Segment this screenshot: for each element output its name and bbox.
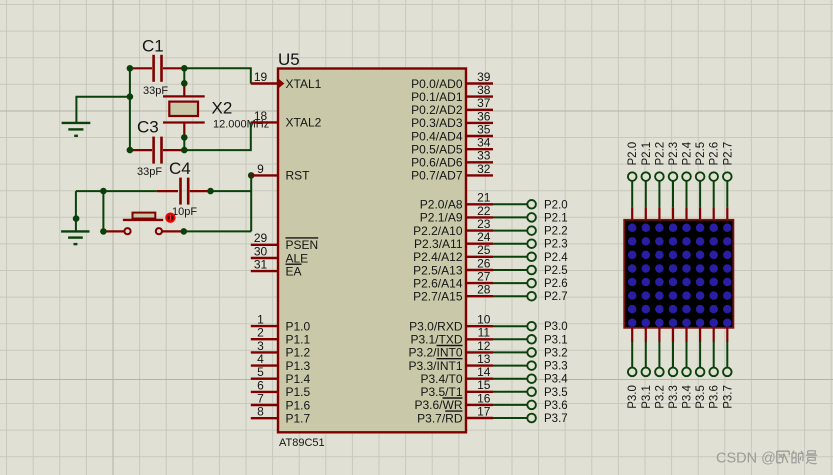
- svg-text:P2.1/A9: P2.1/A9: [420, 211, 463, 225]
- svg-text:12: 12: [477, 339, 491, 353]
- terminal P2.2 matrix top: [654, 142, 666, 181]
- svg-text:15: 15: [477, 378, 491, 392]
- wire P2.0 to terminal: [493, 203, 527, 205]
- svg-text:33pF: 33pF: [143, 85, 168, 97]
- wire matrix bottom column 5: [699, 342, 701, 367]
- terminal P3.1: [527, 334, 567, 346]
- wire matrix bottom column 7: [726, 342, 728, 367]
- pin 35 P0.4/AD4: [411, 122, 493, 143]
- svg-text:16: 16: [477, 391, 491, 405]
- matrix bottom pin 5: [699, 327, 701, 342]
- wire crystal bottom to C3 right: [183, 137, 185, 150]
- terminal P3.5: [527, 387, 567, 399]
- wire C1 right to crystal top: [183, 68, 185, 83]
- matrix bottom pin 2: [658, 327, 660, 342]
- capacitor C1: [131, 37, 184, 98]
- terminal P2.3 matrix top: [668, 142, 680, 181]
- junction RST pin: [248, 172, 255, 179]
- pin 7 P1.6: [251, 391, 311, 412]
- svg-text:P2.1: P2.1: [641, 142, 653, 166]
- svg-text:26: 26: [477, 256, 491, 270]
- junction C1 right: [181, 65, 188, 72]
- svg-text:P1.3: P1.3: [286, 359, 311, 373]
- svg-text:17: 17: [477, 404, 491, 418]
- svg-text:P2.3: P2.3: [668, 142, 680, 166]
- svg-text:31: 31: [254, 258, 268, 272]
- svg-text:9: 9: [257, 162, 264, 176]
- pin 5 P1.4: [251, 365, 311, 386]
- svg-text:P2.3: P2.3: [544, 239, 568, 251]
- pin 1 P1.0: [251, 313, 311, 334]
- terminal P3.2 matrix bottom: [654, 368, 666, 409]
- svg-text:28: 28: [477, 283, 491, 297]
- svg-text:ALE: ALE: [286, 251, 309, 265]
- svg-text:P2.0: P2.0: [544, 199, 568, 211]
- svg-text:29: 29: [254, 231, 268, 245]
- svg-text:35: 35: [477, 122, 491, 136]
- wire P3.5 to terminal: [493, 391, 527, 393]
- matrix bottom pin 3: [672, 327, 674, 342]
- svg-text:34: 34: [477, 136, 491, 150]
- capacitor C4: [157, 159, 211, 218]
- svg-text:C3: C3: [137, 118, 159, 137]
- junction button right: [181, 228, 188, 235]
- svg-text:P0.6/AD6: P0.6/AD6: [411, 156, 463, 170]
- matrix bottom pin 0: [631, 327, 633, 342]
- matrix top pin 4: [685, 207, 687, 221]
- wire P3.3 to terminal: [493, 365, 527, 367]
- junction C4 right: [207, 188, 214, 195]
- svg-text:P1.2: P1.2: [286, 346, 311, 360]
- svg-text:P1.4: P1.4: [286, 372, 311, 386]
- wire RST vertical: [250, 175, 252, 231]
- pin 30 ALE: [251, 244, 308, 265]
- pin 2 P1.1: [251, 326, 311, 347]
- terminal P3.6 matrix bottom: [709, 368, 721, 409]
- pin 6 P1.5: [251, 378, 311, 399]
- wire P2.1 to terminal: [493, 216, 527, 218]
- svg-text:25: 25: [477, 243, 491, 257]
- matrix top pin 2: [658, 207, 660, 221]
- wire P2.6 to terminal: [493, 282, 527, 284]
- terminal P2.1: [527, 212, 567, 224]
- svg-text:P3.0: P3.0: [627, 385, 639, 409]
- svg-text:P3.5: P3.5: [695, 385, 707, 409]
- svg-text:P0.3/AD3: P0.3/AD3: [411, 116, 463, 130]
- svg-text:P3.6: P3.6: [709, 385, 721, 409]
- svg-text:P3.4: P3.4: [682, 385, 694, 409]
- matrix top pin 1: [645, 207, 647, 221]
- svg-text:2: 2: [257, 326, 264, 340]
- svg-text:P3.6/WR: P3.6/WR: [414, 398, 462, 412]
- junction C3 left: [127, 147, 134, 154]
- wire matrix top column 0: [631, 182, 633, 208]
- wire matrix top column 6: [713, 182, 715, 208]
- pin 14 P3.4/T0: [420, 365, 493, 386]
- terminal P3.7: [527, 413, 567, 425]
- svg-text:C1: C1: [142, 37, 164, 56]
- svg-text:P2.4/A12: P2.4/A12: [413, 250, 463, 264]
- wire P3.0 to terminal: [493, 325, 527, 327]
- svg-text:P2.2: P2.2: [654, 142, 666, 166]
- pin 23 P2.2/A10: [413, 217, 493, 238]
- wire matrix top column 1: [645, 182, 647, 208]
- terminal P3.6: [527, 400, 567, 412]
- svg-text:18: 18: [254, 109, 268, 123]
- svg-text:XTAL2: XTAL2: [286, 116, 322, 130]
- svg-text:P0.0/AD0: P0.0/AD0: [411, 77, 463, 91]
- wire matrix bottom column 3: [672, 342, 674, 367]
- pin 18 XTAL2: [251, 109, 322, 130]
- wire C3 right to XTAL2: [184, 122, 251, 150]
- svg-text:P1.7: P1.7: [286, 412, 311, 426]
- capacitor C3: [131, 118, 184, 179]
- svg-text:P3.7/RD: P3.7/RD: [417, 411, 463, 425]
- svg-text:37: 37: [477, 96, 491, 110]
- pin 8 P1.7: [251, 405, 311, 426]
- pin 10 P3.0/RXD: [409, 313, 493, 334]
- wire matrix bottom column 1: [645, 342, 647, 367]
- terminal P2.0: [527, 199, 567, 211]
- svg-text:P3.2: P3.2: [654, 385, 666, 409]
- pin 9 RST: [251, 162, 310, 183]
- pin 25 P2.4/A12: [413, 243, 493, 264]
- svg-text:P2.5: P2.5: [695, 142, 707, 166]
- matrix top pin 0: [631, 207, 633, 221]
- svg-text:P2.6: P2.6: [544, 278, 568, 290]
- svg-text:P0.7/AD7: P0.7/AD7: [411, 169, 463, 183]
- svg-text:P3.1/TXD: P3.1/TXD: [410, 333, 462, 347]
- svg-text:33pF: 33pF: [137, 166, 162, 178]
- pin 38 P0.1/AD1: [411, 83, 493, 104]
- terminal P3.5 matrix bottom: [695, 368, 707, 409]
- LED dot matrix 8x8 body: [624, 220, 733, 328]
- pin 22 P2.1/A9: [420, 204, 493, 225]
- svg-text:RST: RST: [286, 169, 311, 183]
- pin 24 P2.3/A11: [414, 230, 493, 251]
- svg-text:7: 7: [257, 391, 264, 405]
- svg-text:6: 6: [257, 378, 264, 392]
- pin 4 P1.3: [251, 352, 311, 373]
- wire P2.4 to terminal: [493, 256, 527, 258]
- junction button left: [100, 228, 107, 235]
- wire matrix top column 5: [699, 182, 701, 208]
- pin 11 P3.1/TXD: [410, 326, 493, 347]
- terminal P2.0 matrix top: [627, 142, 639, 181]
- matrix bottom pin 6: [713, 327, 715, 342]
- svg-text:P2.2/A10: P2.2/A10: [413, 224, 463, 238]
- svg-text:P3.3: P3.3: [544, 361, 568, 373]
- svg-text:P2.7: P2.7: [722, 142, 734, 166]
- pin 13 P3.3/INT1: [408, 352, 493, 373]
- op-amp U1 equivalent: microcontroller U5 AT89C51 body: [278, 50, 466, 449]
- wire P3.2 to terminal: [493, 351, 527, 353]
- pin 21 P2.0/A8: [420, 191, 493, 212]
- svg-text:P3.1: P3.1: [641, 385, 653, 409]
- pin 31 EA: [251, 258, 302, 279]
- wire ground G2 stem: [75, 191, 77, 231]
- svg-text:3: 3: [257, 339, 264, 353]
- matrix top pin 6: [713, 207, 715, 221]
- wire matrix top column 2: [658, 182, 660, 208]
- svg-text:P0.2/AD2: P0.2/AD2: [411, 103, 463, 117]
- wire C1 right to XTAL1: [184, 68, 251, 83]
- wire P3.6 to terminal: [493, 404, 527, 406]
- wire matrix top column 4: [686, 182, 688, 208]
- svg-text:27: 27: [477, 270, 491, 284]
- terminal P2.5: [527, 265, 567, 277]
- svg-text:8: 8: [257, 405, 264, 419]
- terminal P3.4: [527, 374, 568, 386]
- pin 15 P3.5/T1: [420, 378, 493, 399]
- terminal P2.6: [527, 278, 567, 290]
- terminal P2.4 matrix top: [682, 141, 694, 181]
- wire button left branch: [102, 191, 104, 231]
- wire P3.4 to terminal: [493, 378, 527, 380]
- svg-text:P3.2/INT0: P3.2/INT0: [408, 346, 462, 360]
- junction ground G2: [73, 215, 80, 222]
- svg-text:1: 1: [257, 313, 264, 327]
- pin 33 P0.6/AD6: [411, 149, 493, 170]
- pin 19 XTAL1: [251, 70, 322, 91]
- svg-text:P2.2: P2.2: [544, 226, 568, 238]
- matrix top pin 5: [699, 207, 701, 221]
- svg-text:PSEN: PSEN: [286, 238, 319, 252]
- svg-text:P3.7: P3.7: [722, 385, 734, 409]
- svg-text:P1.1: P1.1: [286, 333, 311, 347]
- svg-text:24: 24: [477, 230, 491, 244]
- svg-text:AT89C51: AT89C51: [279, 437, 325, 449]
- svg-text:P2.5/A13: P2.5/A13: [413, 263, 463, 277]
- pin 27 P2.6/A14: [413, 270, 493, 291]
- svg-text:38: 38: [477, 83, 491, 97]
- svg-text:U5: U5: [278, 50, 300, 69]
- svg-text:P1.5: P1.5: [286, 385, 311, 399]
- svg-text:P2.5: P2.5: [544, 265, 568, 277]
- svg-text:P3.6: P3.6: [544, 400, 568, 412]
- svg-text:P0.5/AD5: P0.5/AD5: [411, 143, 463, 157]
- ground G1: [62, 123, 91, 136]
- wire P2.3 to terminal: [493, 243, 527, 245]
- svg-text:P3.0/RXD: P3.0/RXD: [409, 320, 463, 334]
- svg-text:P2.0: P2.0: [627, 142, 639, 166]
- ground G2: [61, 231, 89, 244]
- matrix top pin 3: [672, 207, 674, 221]
- pin 17 P3.7/RD: [417, 404, 493, 425]
- matrix bottom pin 1: [645, 327, 647, 342]
- svg-text:5: 5: [257, 365, 264, 379]
- matrix top pin 7: [726, 207, 728, 221]
- svg-text:23: 23: [477, 217, 491, 231]
- terminal P3.7 matrix bottom: [722, 368, 734, 409]
- svg-text:P3.2: P3.2: [544, 347, 568, 359]
- terminal P2.2: [527, 226, 567, 238]
- wire button right to RST: [184, 230, 251, 232]
- pin 16 P3.6/WR: [414, 391, 493, 412]
- button interactive marker: [165, 213, 175, 223]
- svg-text:P3.4: P3.4: [544, 374, 568, 386]
- svg-text:XTAL1: XTAL1: [286, 77, 322, 91]
- pin 36 P0.3/AD3: [411, 109, 493, 130]
- pin 32 P0.7/AD7: [411, 162, 493, 183]
- svg-text:11: 11: [478, 326, 491, 340]
- svg-text:X2: X2: [212, 99, 233, 118]
- svg-text:P3.5/T1: P3.5/T1: [420, 385, 462, 399]
- svg-text:21: 21: [477, 191, 491, 205]
- svg-text:P3.1: P3.1: [544, 334, 568, 346]
- junction C4 left: [100, 188, 107, 195]
- wire P3.7 to terminal: [493, 417, 527, 419]
- terminal P2.4: [527, 252, 568, 264]
- wire RST net horizontal: [76, 190, 157, 192]
- svg-text:36: 36: [477, 109, 491, 123]
- pin 29 PSEN: [251, 231, 318, 252]
- svg-text:P3.5: P3.5: [544, 387, 568, 399]
- svg-text:P2.0/A8: P2.0/A8: [420, 198, 463, 212]
- svg-text:10pF: 10pF: [172, 206, 197, 218]
- svg-text:39: 39: [477, 70, 491, 84]
- wire matrix bottom column 4: [686, 342, 688, 367]
- svg-text:P2.4: P2.4: [544, 252, 568, 264]
- svg-text:CSDN @: CSDN @: [716, 451, 776, 467]
- svg-text:33: 33: [477, 149, 491, 163]
- terminal P3.4 matrix bottom: [682, 368, 694, 409]
- wire matrix bottom column 6: [713, 342, 715, 367]
- matrix bottom pin 4: [685, 327, 687, 342]
- svg-text:P2.3/A11: P2.3/A11: [414, 237, 463, 251]
- svg-text:P2.7/A15: P2.7/A15: [413, 290, 463, 304]
- svg-text:22: 22: [477, 204, 491, 218]
- terminal P2.3: [527, 239, 567, 251]
- wire C4 right to RST: [211, 190, 252, 192]
- wire to ground G1: [76, 97, 129, 122]
- pin 12 P3.2/INT0: [408, 339, 493, 360]
- wire P2.2 to terminal: [493, 230, 527, 232]
- pin 3 P1.2: [251, 339, 311, 360]
- svg-text:P3.4/T0: P3.4/T0: [420, 372, 462, 386]
- pin 28 P2.7/A15: [413, 283, 493, 304]
- wire matrix top column 3: [672, 182, 674, 208]
- svg-text:30: 30: [254, 244, 268, 258]
- pin 37 P0.2/AD2: [411, 96, 493, 117]
- svg-text:4: 4: [257, 352, 264, 366]
- svg-text:13: 13: [477, 352, 491, 366]
- junction crystal bottom: [181, 134, 188, 141]
- push button reset switch: [103, 213, 183, 235]
- svg-text:P0.1/AD1: P0.1/AD1: [411, 90, 463, 104]
- pin 39 P0.0/AD0: [411, 70, 493, 91]
- svg-text:P3.3: P3.3: [668, 385, 680, 409]
- svg-text:10: 10: [477, 313, 491, 327]
- svg-text:P1.0: P1.0: [286, 319, 311, 333]
- svg-text:19: 19: [254, 70, 268, 84]
- terminal P3.1 matrix bottom: [641, 368, 653, 409]
- terminal P2.5 matrix top: [695, 142, 707, 181]
- terminal P3.3 matrix bottom: [668, 368, 680, 409]
- terminal P2.1 matrix top: [641, 142, 653, 181]
- terminal P3.2: [527, 347, 567, 359]
- svg-text:32: 32: [477, 162, 491, 176]
- svg-text:14: 14: [477, 365, 491, 379]
- wire matrix top column 7: [726, 182, 728, 208]
- wire P3.1 to terminal: [493, 338, 527, 340]
- svg-text:C4: C4: [169, 159, 191, 178]
- terminal P3.0 matrix bottom: [627, 368, 639, 409]
- svg-text:P2.1: P2.1: [544, 212, 568, 224]
- svg-text:P2.4: P2.4: [682, 141, 694, 165]
- svg-text:EA: EA: [286, 264, 302, 278]
- junction ground branch: [127, 93, 134, 100]
- junction C1 left: [127, 65, 134, 72]
- svg-text:P2.6: P2.6: [709, 142, 721, 166]
- pin 26 P2.5/A13: [413, 256, 493, 277]
- terminal P2.7 matrix top: [722, 142, 734, 181]
- junction C3 right: [181, 147, 188, 154]
- crystal X2: [163, 83, 269, 137]
- junction crystal top: [181, 80, 188, 87]
- wire C1 left to C3 left: [129, 68, 131, 150]
- svg-text:P0.4/AD4: P0.4/AD4: [411, 129, 463, 143]
- matrix bottom pin 7: [726, 327, 728, 342]
- wire P2.5 to terminal: [493, 269, 527, 271]
- terminal P2.6 matrix top: [709, 142, 721, 181]
- wire P2.7 to terminal: [493, 295, 527, 297]
- svg-text:P3.0: P3.0: [544, 321, 568, 333]
- terminal P3.3: [527, 361, 567, 373]
- wire matrix bottom column 2: [658, 342, 660, 367]
- pin 34 P0.5/AD5: [411, 136, 493, 157]
- svg-text:P3.3/INT1: P3.3/INT1: [408, 359, 462, 373]
- terminal P2.7: [527, 291, 567, 303]
- svg-text:P3.7: P3.7: [544, 413, 568, 425]
- svg-text:P1.6: P1.6: [286, 398, 311, 412]
- terminal P3.0: [527, 321, 567, 333]
- wire matrix bottom column 0: [631, 342, 633, 367]
- svg-text:P2.7: P2.7: [544, 291, 568, 303]
- svg-text:P2.6/A14: P2.6/A14: [413, 276, 463, 290]
